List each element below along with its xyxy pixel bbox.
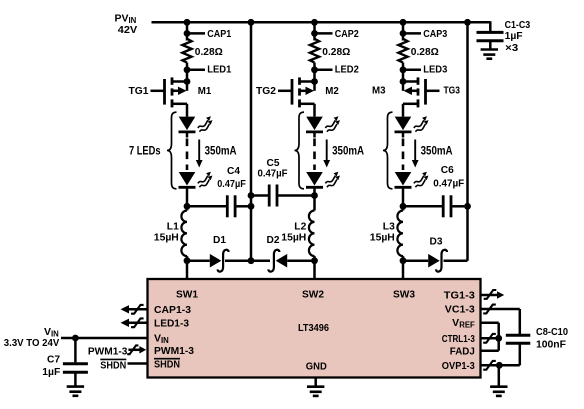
wire C5 right <box>278 194 314 197</box>
svg-text:350mA: 350mA <box>332 144 364 158</box>
svg-text:LED3: LED3 <box>423 64 447 76</box>
node ch2 LED bottom <box>311 192 318 199</box>
svg-text:SHDN: SHDN <box>100 359 126 371</box>
svg-text:TG2: TG2 <box>256 85 276 97</box>
wire C6 left <box>403 205 442 208</box>
wire SW3 to IC <box>402 261 405 280</box>
wire CTRL1-3 <box>481 334 499 343</box>
label C5 <box>267 157 280 169</box>
svg-text:LED1: LED1 <box>207 64 231 76</box>
svg-text:0.28Ω: 0.28Ω <box>195 46 223 58</box>
brace ch2 <box>295 112 305 189</box>
capacitor C1-C3 <box>477 32 504 49</box>
wire C4 left <box>187 205 226 208</box>
label PVIN <box>115 12 137 25</box>
wire ch1 led-junction <box>186 187 189 206</box>
node LED3 <box>400 66 421 73</box>
resistor 0.28ohm ch1 <box>182 39 191 63</box>
label x3 <box>505 42 518 54</box>
wire ch3 res-led <box>402 63 405 82</box>
label M2 <box>325 85 339 97</box>
svg-text:C6: C6 <box>441 164 454 176</box>
svg-text:0.47µF: 0.47µF <box>433 177 465 189</box>
svg-text:D1: D1 <box>213 234 226 246</box>
pin SHDN label <box>154 359 180 371</box>
inductor L3 <box>397 211 403 257</box>
svg-text:M1: M1 <box>198 85 212 97</box>
ground C7 <box>67 372 84 396</box>
svg-text:FADJ: FADJ <box>450 346 475 358</box>
node rail-right <box>464 19 471 26</box>
wire ch1 coil-sw <box>186 256 189 261</box>
node rail-ch2 <box>311 19 318 26</box>
svg-text:D2: D2 <box>267 234 280 246</box>
svg-text:SW3: SW3 <box>393 289 415 301</box>
pin GND label <box>306 361 327 373</box>
op-amp U1 LT3496 box <box>148 279 481 378</box>
label CAP2 <box>335 28 359 40</box>
node OVP junction <box>496 362 503 369</box>
label 3.3V TO 24V <box>4 337 60 349</box>
label TG2 <box>256 85 276 97</box>
led string ch3 second LED <box>395 172 429 188</box>
wire C5 left <box>251 194 268 197</box>
wire ch1 res-led <box>186 63 189 82</box>
svg-text:350mA: 350mA <box>205 144 237 158</box>
node ch1 LED bottom <box>184 203 191 210</box>
wire central vertical <box>250 22 253 260</box>
wire D3 cathode <box>444 259 468 262</box>
label 15uH ch3 <box>370 231 395 243</box>
wire ch3 coil-sw <box>402 256 405 261</box>
node CAP3 <box>400 30 421 37</box>
label 350mA ch3 <box>421 144 453 158</box>
label 42V <box>118 24 138 36</box>
wire C7 stem <box>74 338 77 362</box>
label L3 <box>383 220 395 232</box>
ground C1-C3 <box>481 50 498 59</box>
svg-text:0.28Ω: 0.28Ω <box>411 46 439 58</box>
pin CAP1-3 arrow <box>121 305 148 314</box>
label SHDN net <box>100 359 126 371</box>
svg-text:SW2: SW2 <box>302 289 324 301</box>
label 15uH ch1 <box>154 231 179 243</box>
label CAP1 <box>207 28 231 40</box>
svg-text:15µH: 15µH <box>154 231 179 243</box>
pin VREF label <box>452 317 475 330</box>
diode D2 <box>268 250 287 272</box>
label C6 <box>441 164 454 176</box>
pin VIN label <box>154 332 169 345</box>
current arrow 350mA ch2 <box>323 140 330 168</box>
svg-text:M3: M3 <box>372 84 386 96</box>
wire SW2 to IC <box>313 261 316 280</box>
wire ch2 led-dash <box>313 132 316 170</box>
svg-text:×3: ×3 <box>505 42 518 54</box>
label C7 <box>47 354 60 366</box>
node rail-mid <box>248 19 255 26</box>
capacitor C7 <box>63 364 88 373</box>
svg-text:0.28Ω: 0.28Ω <box>322 46 350 58</box>
ground GND pin <box>307 378 324 396</box>
node CTRL junction <box>495 335 502 342</box>
wire FADJ <box>481 349 499 352</box>
transistor M3 <box>400 77 440 107</box>
led string ch3 first LED <box>395 116 429 132</box>
svg-text:TG1: TG1 <box>129 85 149 97</box>
capacitor C8-C10 <box>506 335 531 343</box>
svg-text:C1-C3: C1-C3 <box>505 19 531 31</box>
svg-text:3.3V TO 24V: 3.3V TO 24V <box>4 337 60 349</box>
svg-text:15µH: 15µH <box>281 231 306 243</box>
pin OVP1-3 label <box>442 360 475 372</box>
wire ch3 junction-coil <box>402 206 405 210</box>
node SW3 junction <box>400 257 407 264</box>
label C7 value <box>42 366 61 378</box>
label C4 <box>227 165 240 177</box>
label 0.28ohm ch3 <box>411 46 439 58</box>
node C4-central <box>248 203 255 210</box>
node LED2 <box>311 66 332 73</box>
ground OVP <box>490 365 507 396</box>
label 0.28ohm ch2 <box>322 46 350 58</box>
wire ch1 top <box>186 22 189 40</box>
svg-text:LT3496: LT3496 <box>298 322 329 334</box>
wire D2 cathode <box>251 259 270 262</box>
label D3 <box>430 235 443 247</box>
pin VC1-3 label <box>445 304 475 316</box>
pin SW1 label <box>176 289 198 301</box>
brace ch3 <box>383 112 393 189</box>
wire D3 anode <box>403 259 428 262</box>
pin PWM1-3 arrow <box>127 345 146 354</box>
led string ch1 second LED <box>179 172 213 188</box>
node CAP1 <box>184 30 205 37</box>
svg-text:C8-C10: C8-C10 <box>536 326 568 338</box>
svg-text:PWM1-3: PWM1-3 <box>154 345 194 357</box>
led string ch2 first LED <box>306 116 340 132</box>
svg-text:1µF: 1µF <box>42 366 61 378</box>
label LED2 <box>335 64 359 76</box>
wire ch3 led-dash <box>402 132 405 170</box>
wire ch1 led-dash <box>186 132 189 170</box>
label 15uH ch2 <box>281 231 306 243</box>
capacitor C4 <box>227 195 235 217</box>
label CAP3 <box>423 28 447 40</box>
transistor M1 <box>151 77 191 107</box>
current arrow 350mA ch3 <box>412 140 419 168</box>
wire ch3 top <box>402 22 405 40</box>
node C6-right <box>464 203 471 210</box>
label M3 <box>372 84 386 96</box>
svg-text:CAP1-3: CAP1-3 <box>154 304 191 316</box>
svg-text:7 LEDs: 7 LEDs <box>129 144 161 158</box>
node CAP2 <box>311 30 332 37</box>
label LED1 <box>207 64 231 76</box>
label C6 value <box>433 177 465 189</box>
label 100nF <box>536 339 567 351</box>
node D1-D2 <box>248 257 255 264</box>
pin CTRL1-3 label <box>442 333 475 345</box>
svg-text:CAP2: CAP2 <box>335 28 359 40</box>
brace ch1 <box>167 112 177 189</box>
node C5-central <box>248 192 255 199</box>
wire D1 cathode <box>225 259 251 262</box>
wire ch1 junction-coil <box>186 206 189 210</box>
pin LED1-3 label <box>154 318 189 330</box>
svg-text:0.47µF: 0.47µF <box>217 178 246 190</box>
wire OVP1-3 <box>481 343 520 369</box>
wire C6 right <box>452 205 467 208</box>
label LT3496 <box>298 322 329 334</box>
label TG1 <box>129 85 149 97</box>
resistor 0.28ohm ch3 <box>398 39 407 63</box>
wire ch3 drain <box>402 104 405 117</box>
pin TG1-3 label <box>444 289 475 301</box>
pin PWM1-3 label <box>154 345 194 357</box>
label C1-C3 <box>505 19 531 31</box>
svg-text:LED1-3: LED1-3 <box>154 318 189 330</box>
wire C4 right <box>236 205 251 208</box>
wire VREF <box>481 323 499 351</box>
capacitor C5 <box>269 185 277 207</box>
current arrow 350mA ch1 <box>196 140 203 168</box>
label PWM1-3 net <box>88 346 128 358</box>
capacitor C6 <box>443 195 451 217</box>
svg-text:GND: GND <box>306 361 327 373</box>
wire ch2 top <box>313 22 316 40</box>
wire VC1-3 <box>481 305 520 336</box>
label 1uF <box>505 30 524 42</box>
svg-text:SHDN: SHDN <box>154 359 180 371</box>
label LED3 <box>423 64 447 76</box>
wire right vertical <box>466 22 469 260</box>
wire VIN <box>61 337 148 340</box>
svg-text:M2: M2 <box>325 85 339 97</box>
pin CAP1-3 label <box>154 304 191 316</box>
label 7 LEDs <box>129 144 161 158</box>
wire D1 anode <box>187 259 210 262</box>
inductor L2 <box>309 211 315 257</box>
svg-text:TG3: TG3 <box>444 85 461 97</box>
svg-text:100nF: 100nF <box>536 339 567 351</box>
svg-text:OVP1-3: OVP1-3 <box>442 360 475 372</box>
svg-text:TG1-3: TG1-3 <box>444 289 475 301</box>
node VIN-C7 <box>72 335 79 342</box>
label C8-C10 <box>536 326 568 338</box>
wire ch2 led-junction <box>313 187 316 195</box>
label VIN input <box>44 326 59 339</box>
pin SW3 label <box>393 289 415 301</box>
label 350mA ch2 <box>332 144 364 158</box>
label D2 <box>267 234 280 246</box>
wire SHDN <box>128 362 148 365</box>
label L2 <box>294 220 306 232</box>
label D1 <box>213 234 226 246</box>
label TG3 <box>444 85 461 97</box>
wire PVIN rail <box>152 21 491 24</box>
label 0.28ohm ch1 <box>195 46 223 58</box>
svg-text:SW1: SW1 <box>176 289 198 301</box>
node SW1 junction <box>184 257 191 264</box>
wire ch2 coil-sw <box>313 256 316 261</box>
wire rail to C1-C3 <box>468 21 491 31</box>
pin FADJ label <box>450 346 475 358</box>
svg-text:0.47µF: 0.47µF <box>258 167 289 179</box>
svg-text:C4: C4 <box>227 165 240 177</box>
node LED1 <box>184 66 205 73</box>
wire ch2 drain <box>313 104 316 117</box>
pin TG1-3 arrow <box>481 290 505 299</box>
led string ch1 first LED <box>179 116 213 132</box>
diode D1 <box>210 250 229 272</box>
svg-text:1µF: 1µF <box>505 30 524 42</box>
svg-text:15µH: 15µH <box>370 231 395 243</box>
svg-text:D3: D3 <box>430 235 443 247</box>
svg-text:C7: C7 <box>47 354 60 366</box>
resistor 0.28ohm ch2 <box>310 39 319 63</box>
wire SW1 to IC <box>186 261 189 280</box>
svg-text:LED2: LED2 <box>335 64 359 76</box>
svg-text:42V: 42V <box>118 24 138 36</box>
label M1 <box>198 85 212 97</box>
pin LED1-3 arrow <box>121 318 148 327</box>
inductor L1 <box>181 211 187 257</box>
svg-text:VC1-3: VC1-3 <box>445 304 475 316</box>
label 350mA ch1 <box>205 144 237 158</box>
label C4 value <box>217 178 246 190</box>
svg-text:CAP1: CAP1 <box>207 28 231 40</box>
svg-text:PWM1-3: PWM1-3 <box>88 346 128 358</box>
wire D2 anode <box>287 259 314 262</box>
transistor M2 <box>278 77 318 107</box>
label L1 <box>167 220 179 232</box>
svg-text:CTRL1-3: CTRL1-3 <box>442 333 475 345</box>
wire ch3 led-junction <box>402 187 405 206</box>
label C5 value <box>258 167 289 179</box>
node SW2 junction <box>311 257 318 264</box>
node ch3 LED bottom <box>400 203 407 210</box>
pin SW2 label <box>302 289 324 301</box>
wire ch2 junction-coil <box>313 196 316 211</box>
node rail-ch3 <box>400 19 407 26</box>
svg-text:350mA: 350mA <box>421 144 453 158</box>
wire ch2 res-led <box>313 63 316 82</box>
diode D3 <box>428 250 447 272</box>
led string ch2 second LED <box>306 172 340 188</box>
svg-text:CAP3: CAP3 <box>423 28 447 40</box>
node rail-ch1 <box>184 19 191 26</box>
wire ch1 drain <box>186 104 189 117</box>
